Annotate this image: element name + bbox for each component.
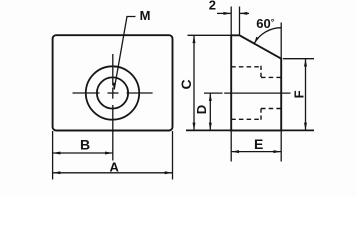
dimension F extension line (top) bbox=[283, 58, 314, 60]
svg-text:C: C bbox=[178, 79, 194, 89]
60 degree: arrowhead on chamfer bbox=[254, 37, 259, 44]
svg-text:2: 2 bbox=[209, 0, 216, 13]
left view: part outline bbox=[53, 35, 173, 130]
right view: body outline bbox=[231, 35, 281, 130]
counterbore circle (outer) bbox=[86, 66, 139, 119]
C arrow bottom bbox=[193, 123, 196, 131]
hidden line: counterbore bottom bbox=[231, 118, 261, 120]
hidden line: step face lower bbox=[260, 109, 262, 121]
dimension E: left extension bbox=[230, 130, 232, 161]
D arrow top bbox=[209, 93, 212, 101]
F arrow bottom bbox=[304, 123, 307, 131]
dimension E line bbox=[231, 151, 281, 153]
60 degree: arc bbox=[254, 28, 281, 44]
dimension 2: left extension line bbox=[230, 7, 232, 36]
D arrow bottom bbox=[209, 123, 212, 131]
hole circle (inner) bbox=[97, 77, 128, 108]
dimension A line bbox=[53, 172, 173, 174]
C top extension line bbox=[188, 34, 232, 36]
svg-text:M: M bbox=[140, 8, 151, 23]
hidden line: counterbore top bbox=[231, 66, 261, 68]
60 degree: edge extension line bbox=[280, 23, 282, 59]
hidden line: step face upper bbox=[260, 66, 262, 78]
hidden line: small bore bottom bbox=[261, 108, 281, 110]
extension line left (A/B) bbox=[52, 131, 54, 180]
dimension 2: right extension line bbox=[239, 7, 241, 36]
E arrow right bbox=[273, 150, 281, 153]
svg-text:B: B bbox=[80, 137, 90, 153]
dimension E: right extension bbox=[280, 130, 282, 161]
dimension C line bbox=[193, 35, 195, 130]
svg-text:E: E bbox=[254, 136, 263, 152]
B arrow left bbox=[53, 152, 61, 155]
C arrow top bbox=[193, 35, 196, 43]
base line bbox=[186, 129, 314, 131]
svg-text:A: A bbox=[110, 159, 120, 174]
dimension D line bbox=[209, 93, 211, 130]
dimension F line bbox=[305, 59, 307, 131]
B arrow right bbox=[105, 152, 113, 155]
dimension 2: right arrow bbox=[240, 12, 250, 14]
extension line right (A) bbox=[172, 131, 174, 180]
E arrow left bbox=[231, 150, 239, 153]
svg-text:D: D bbox=[194, 105, 209, 114]
horizontal centerline bbox=[73, 92, 153, 94]
vertical centerline bbox=[112, 54, 114, 161]
D top extension line bbox=[204, 92, 223, 94]
dimension B line bbox=[53, 152, 113, 154]
leader arrowhead bbox=[112, 83, 115, 90]
A arrow left bbox=[53, 171, 61, 174]
hidden line: small bore top bbox=[261, 76, 281, 78]
leader line to M bbox=[114, 17, 135, 90]
A arrow right bbox=[165, 171, 173, 174]
right view centerline bbox=[224, 92, 290, 94]
F arrow top bbox=[304, 59, 307, 67]
svg-text:F: F bbox=[291, 90, 306, 98]
dimension 2: left arrow bbox=[217, 12, 231, 14]
